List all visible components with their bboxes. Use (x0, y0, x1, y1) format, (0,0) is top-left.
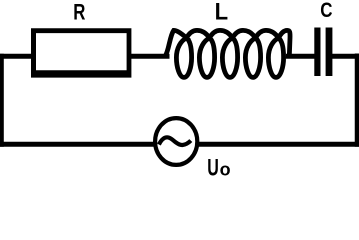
svg-text:R: R (73, 1, 85, 26)
svg-text:C: C (320, 0, 332, 22)
svg-text:U: U (207, 156, 219, 176)
svg-text:o: o (220, 158, 231, 176)
svg-text:L: L (215, 0, 228, 25)
